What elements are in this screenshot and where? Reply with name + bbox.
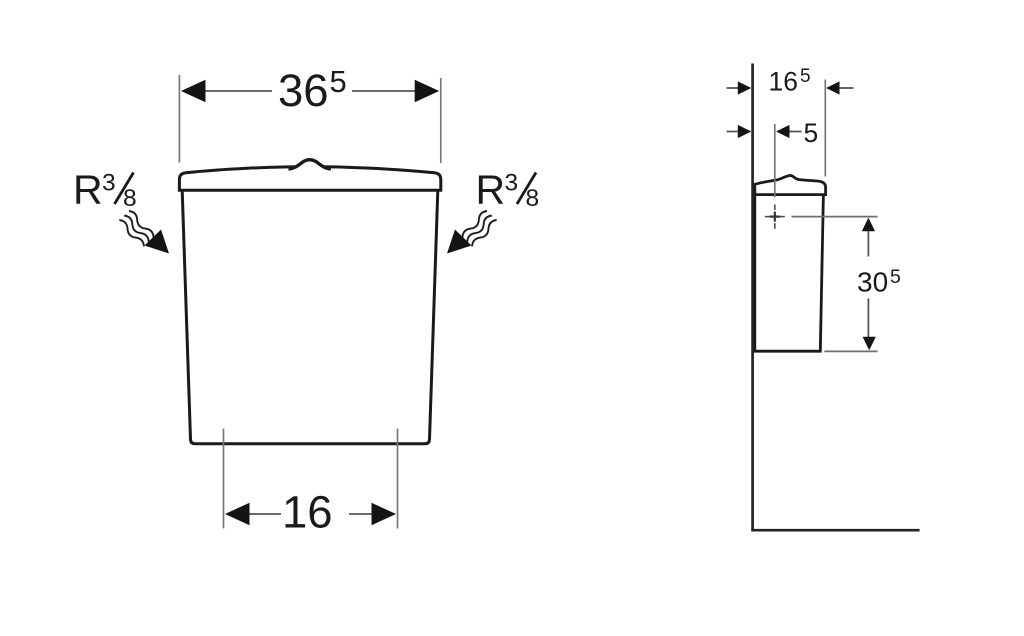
- svg-text:R: R: [476, 167, 506, 213]
- svg-text:5: 5: [800, 66, 811, 87]
- crosshair centre mark: [765, 204, 785, 228]
- dimension line 16 left segment: [246, 513, 281, 515]
- dimension 16.5: arrowhead at wall: [738, 81, 752, 94]
- label R3/8 right: fraction slash: [517, 173, 536, 205]
- extension line for 5 (spud centre), crosses the lid: [774, 124, 776, 197]
- cistern front lid: [179, 167, 440, 191]
- dimension 5: right tail line: [790, 131, 802, 133]
- cistern side lid: [755, 175, 826, 194]
- flush button on lid: [289, 160, 331, 169]
- arrowhead left of 16: [225, 503, 250, 525]
- svg-text:5: 5: [330, 64, 347, 99]
- label R3/8 left: fraction slash: [115, 173, 134, 205]
- svg-text:5: 5: [804, 118, 819, 148]
- extension line right of 36.5 dimension: [440, 78, 442, 163]
- dimension line 36.5 right segment: [352, 90, 416, 92]
- top reference line of 30.5: [792, 216, 878, 218]
- svg-text:16: 16: [769, 66, 798, 96]
- arrowhead right of 16: [372, 503, 397, 525]
- svg-text:36: 36: [278, 65, 329, 116]
- cistern front body: [182, 191, 438, 444]
- bottom reference line of 30.5: [824, 350, 877, 352]
- dimension 5: arrowhead at wall: [738, 125, 752, 138]
- arrowhead right of 36.5: [415, 80, 440, 102]
- wall line: [751, 64, 754, 532]
- squiggle flow arrow left: [118, 209, 169, 253]
- dimension 16.5: right tail line: [840, 87, 854, 89]
- svg-text:16: 16: [282, 486, 333, 537]
- extension line right of 16 dimension: [397, 429, 399, 529]
- svg-text:5: 5: [890, 266, 901, 288]
- arrowhead left of 36.5: [181, 80, 206, 102]
- crosshair centre cross: [770, 212, 780, 222]
- dimension 30.5: down arrowhead: [863, 337, 876, 351]
- dimension 30.5: upper stem: [867, 231, 869, 257]
- dimension 16.5: left tail line: [727, 87, 741, 89]
- extension line left of 36.5 dimension: [178, 75, 180, 163]
- svg-text:30: 30: [857, 266, 888, 297]
- floor line: [751, 529, 919, 532]
- svg-text:3: 3: [505, 170, 519, 197]
- dimension 30.5: up arrowhead: [862, 218, 875, 232]
- dimension 5: left tail line: [727, 131, 741, 133]
- dimension 30.5: lower stem: [867, 299, 869, 339]
- dimension line 36.5 left segment: [204, 90, 272, 92]
- cistern side body: [755, 195, 824, 352]
- dimension line 16 right segment: [349, 513, 374, 515]
- svg-text:8: 8: [123, 185, 137, 212]
- extension line for 16.5 (front of cistern): [824, 80, 826, 177]
- dimension 16.5: right arrowhead: [826, 81, 840, 94]
- extension line left of 16 dimension: [223, 429, 225, 529]
- svg-text:3: 3: [102, 170, 116, 197]
- squiggle flow arrow right (mirrored): [447, 209, 498, 253]
- svg-text:8: 8: [526, 185, 540, 212]
- svg-text:R: R: [73, 167, 103, 213]
- dimension 5: right arrowhead: [776, 125, 790, 138]
